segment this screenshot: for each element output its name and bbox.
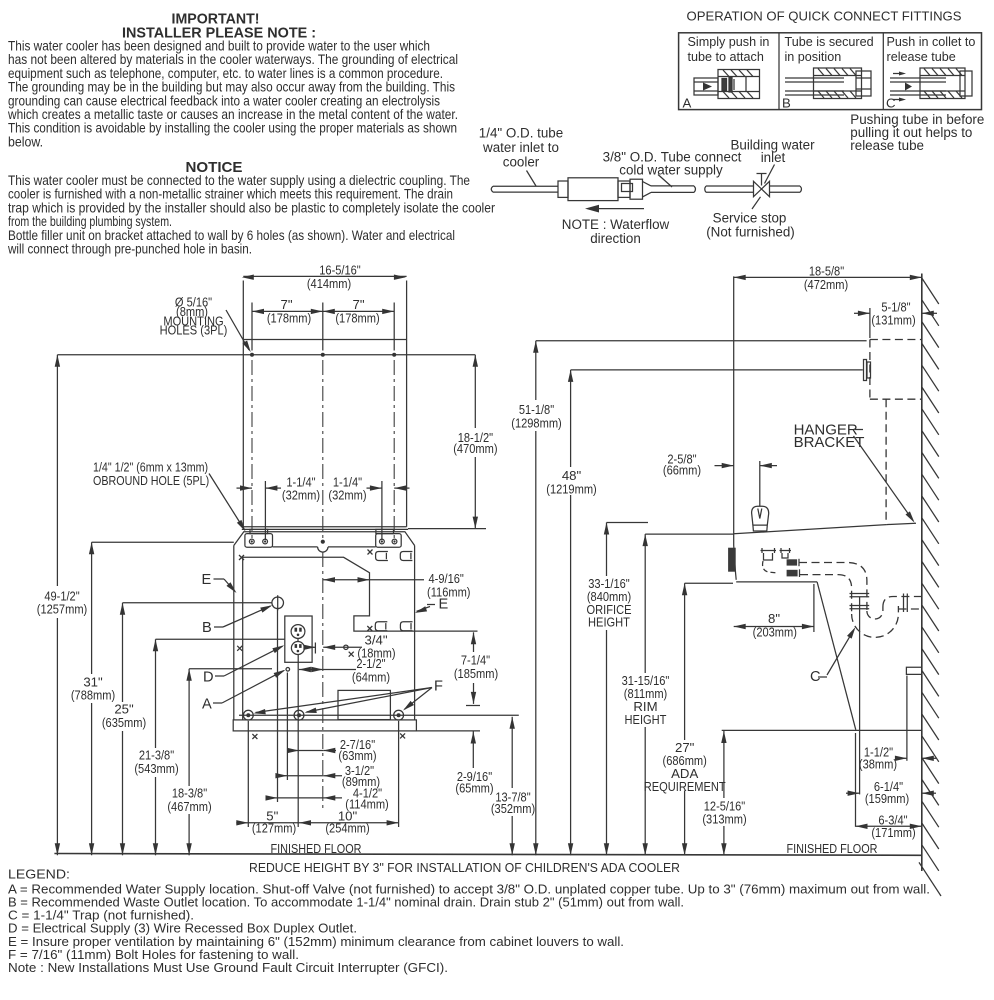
svg-text:OPERATION OF QUICK CONNECT FIT: OPERATION OF QUICK CONNECT FITTINGS <box>687 9 962 24</box>
trap U bend dashed <box>852 606 899 637</box>
floor line <box>54 854 921 856</box>
mounting hole dots <box>250 353 254 357</box>
louver panel <box>338 690 390 719</box>
leader 1/4 tube <box>527 171 537 187</box>
electrical outlet box D <box>285 616 312 662</box>
bracket outline <box>243 340 406 527</box>
svg-text:(203mm): (203mm) <box>753 625 797 640</box>
dimension 12-5/16 <box>702 731 746 855</box>
drain stub <box>729 548 736 571</box>
svg-text:direction: direction <box>590 231 641 246</box>
svg-text:REDUCE HEIGHT BY 3" FOR INSTAL: REDUCE HEIGHT BY 3" FOR INSTALLATION OF … <box>249 860 680 875</box>
dimension 49-1/2 <box>37 355 88 856</box>
dimension 27 ADA requirement <box>644 583 733 855</box>
svg-text:HOLES (3PL): HOLES (3PL) <box>160 323 228 338</box>
label F leaders <box>253 679 443 716</box>
svg-text:(63mm): (63mm) <box>338 748 376 763</box>
svg-text:(32mm): (32mm) <box>282 488 320 503</box>
centerline body <box>322 552 324 812</box>
svg-text:(127mm): (127mm) <box>252 820 296 835</box>
label E left <box>202 572 239 595</box>
svg-text:1/4" O.D. tube: 1/4" O.D. tube <box>479 126 563 141</box>
label D <box>203 643 286 686</box>
svg-text:in position: in position <box>785 50 842 64</box>
svg-text:(467mm): (467mm) <box>167 799 211 814</box>
svg-text:(65mm): (65mm) <box>455 780 493 795</box>
svg-text:(470mm): (470mm) <box>453 441 497 456</box>
cooler front face <box>734 534 737 580</box>
svg-text:release tube: release tube <box>887 50 956 64</box>
svg-text:cooler: cooler <box>503 155 540 170</box>
bracket centerlines <box>251 360 253 540</box>
duplex receptacle upper <box>291 625 305 639</box>
bottom kick bar <box>233 720 416 731</box>
fitting A graphic <box>694 70 760 99</box>
dimension 4-1/2 (114mm) <box>266 785 389 811</box>
dashed water line upper <box>799 563 867 612</box>
cooler body outline front <box>234 532 415 720</box>
svg-text:OBROUND HOLE (5PL): OBROUND HOLE (5PL) <box>93 474 209 488</box>
dimension 51-1/8 (1298mm) <box>511 341 562 856</box>
title NOTICE note <box>7 159 495 257</box>
svg-text:Simply push in: Simply push in <box>688 35 770 49</box>
dimension 3/4 (18mm) <box>303 633 395 661</box>
ext lines bottom dims <box>248 609 398 827</box>
cooler bottom edge <box>736 581 817 583</box>
dimension 2-9/16 (65mm) <box>416 731 493 796</box>
clip lower right <box>400 622 412 631</box>
title IMPORTANT note <box>7 11 458 150</box>
svg-text:Push in collet to: Push in collet to <box>887 35 976 49</box>
label E right <box>414 597 449 616</box>
internal dashed bowl <box>763 561 778 573</box>
wall hatching <box>919 278 941 896</box>
water supply node A <box>286 668 290 672</box>
svg-text:(32mm): (32mm) <box>328 488 366 503</box>
svg-text:inlet: inlet <box>761 150 786 165</box>
svg-text:(414mm): (414mm) <box>307 276 351 291</box>
dimension 3-1/2 (89mm) <box>275 763 380 789</box>
bolt hole F1 <box>243 710 253 720</box>
svg-text:LEGEND:: LEGEND: <box>8 867 70 882</box>
leader building inlet <box>765 165 775 184</box>
leader service stop <box>752 197 761 209</box>
inner panel contour <box>243 557 415 720</box>
svg-text:(472mm): (472mm) <box>804 277 848 292</box>
svg-text:(313mm): (313mm) <box>702 812 746 827</box>
clip upper left <box>376 552 388 561</box>
wall cleat <box>906 667 921 674</box>
dimension 2-7/16 (63mm) <box>287 737 377 763</box>
svg-text:(788mm): (788mm) <box>71 688 115 703</box>
dimension 1-1/4 (32mm) right <box>328 474 409 540</box>
svg-text:(1219mm): (1219mm) <box>546 481 597 496</box>
obround mounting tab left <box>245 529 273 547</box>
legend <box>8 867 930 976</box>
cooler top edge <box>734 525 887 534</box>
dimension 5 and 10 <box>236 809 398 836</box>
waste outlet circle B <box>272 597 284 609</box>
note waterflow arrow <box>589 208 644 210</box>
hanger bolt <box>864 360 871 381</box>
dimension 13-7/8 (352mm) <box>491 717 535 856</box>
label C <box>810 626 858 685</box>
front plane line <box>733 276 735 533</box>
leader 3/8 tube <box>658 175 672 188</box>
svg-text:B: B <box>202 620 212 636</box>
svg-text:1/4" 1/2" (6mm x 13mm): 1/4" 1/2" (6mm x 13mm) <box>93 461 208 475</box>
service stop valve <box>754 174 770 197</box>
wall line <box>921 274 923 872</box>
label obround hole <box>93 461 248 533</box>
mounting holes line <box>57 354 475 356</box>
fitting B graphic <box>785 68 871 99</box>
dimension 33-1/16 orifice height <box>587 523 648 856</box>
svg-text:Service stop: Service stop <box>713 210 787 225</box>
svg-text:(178mm): (178mm) <box>335 310 379 325</box>
dimension 8 (203mm) <box>734 584 814 640</box>
label A <box>202 667 287 712</box>
svg-text:B: B <box>782 96 791 111</box>
svg-text:(159mm): (159mm) <box>865 791 909 806</box>
recessed wall box dashed <box>870 340 922 400</box>
svg-text:D: D <box>203 670 214 686</box>
label B <box>202 603 273 636</box>
dimension 6-3/4 (171mm) <box>856 733 922 840</box>
ref line 31in <box>92 541 234 543</box>
svg-text:(185mm): (185mm) <box>454 666 498 681</box>
dimension 18-5/8 (472mm) <box>734 263 922 292</box>
dimension 7 (178mm) left <box>252 297 394 351</box>
dimension 2-5/8 (66mm) <box>663 452 777 506</box>
bracket bottom flange <box>243 526 406 528</box>
clip lower left <box>375 622 387 631</box>
obround mounting tab right <box>376 529 402 547</box>
dimension 4-9/16 (116mm) <box>323 571 471 599</box>
svg-text:(38mm): (38mm) <box>859 756 897 771</box>
ref line 18-3/8 <box>189 668 272 670</box>
svg-text:below.: below. <box>8 133 43 149</box>
dashed water line lower <box>800 575 852 614</box>
ref line 51-1/8 top <box>536 340 867 342</box>
tube inlet assembly <box>491 178 801 201</box>
knee space line <box>722 729 922 731</box>
svg-text:(543mm): (543mm) <box>134 761 178 776</box>
svg-text:cold water supply: cold water supply <box>619 163 723 178</box>
dimension 18-3/8 <box>167 669 211 856</box>
svg-text:(352mm): (352mm) <box>491 801 535 816</box>
dimension 7-1/4 (185mm) <box>415 631 499 705</box>
dimension 1-1/2 (38mm) <box>859 676 936 772</box>
svg-text:F: F <box>434 679 443 695</box>
x-marks <box>237 550 405 740</box>
svg-text:E: E <box>439 597 449 613</box>
trap outlet dashed <box>883 597 922 610</box>
svg-text:C: C <box>886 96 896 111</box>
svg-text:NOTE : Waterflow: NOTE : Waterflow <box>562 217 670 232</box>
clip upper right <box>400 552 412 561</box>
label mounting holes <box>160 295 253 354</box>
svg-text:This condition is avoidable by: This condition is avoidable by installin… <box>8 120 457 136</box>
svg-text:(Not furnished): (Not furnished) <box>706 224 795 239</box>
dimension 25 <box>102 603 146 856</box>
dimension 21-3/8 <box>134 639 178 855</box>
center hole and notch <box>321 540 325 544</box>
dimension 18-1/2 (470mm) <box>408 355 498 529</box>
bolt hole F3 <box>394 710 404 720</box>
svg-text:(116mm): (116mm) <box>427 584 471 599</box>
svg-text:HEIGHT: HEIGHT <box>588 615 630 630</box>
internal valve fitting upper <box>761 548 792 560</box>
svg-text:(178mm): (178mm) <box>267 310 311 325</box>
duplex receptacle lower <box>291 642 304 655</box>
ref line 25in <box>123 602 272 604</box>
svg-text:(254mm): (254mm) <box>325 820 369 835</box>
svg-text:(635mm): (635mm) <box>102 715 146 730</box>
cooler rear bottom diagonal <box>817 582 856 730</box>
ref line 21-3/8 <box>156 638 285 640</box>
dashed line box to cooler <box>885 399 887 523</box>
svg-text:tube to attach: tube to attach <box>688 50 764 64</box>
quick connect fittings box <box>679 33 982 110</box>
quick connect fittings dark <box>787 559 800 577</box>
dimension 6-1/4 (159mm) <box>846 597 936 806</box>
svg-text:(66mm): (66mm) <box>663 463 701 478</box>
svg-text:A: A <box>202 697 212 713</box>
svg-text:E: E <box>202 572 212 588</box>
svg-text:(131mm): (131mm) <box>871 312 915 327</box>
svg-text:16-5/16": 16-5/16" <box>319 262 361 277</box>
svg-text:REQUIREMENT: REQUIREMENT <box>644 779 726 794</box>
svg-text:HEIGHT: HEIGHT <box>625 712 667 727</box>
trap unions <box>850 594 908 613</box>
dimension 1-1/4 (32mm) left <box>237 474 321 540</box>
svg-text:water inlet to: water inlet to <box>482 140 559 155</box>
svg-text:will connect through pre-punch: will connect through pre-punched hole in… <box>7 241 252 257</box>
dimension 16-5/16 (414mm) <box>242 262 407 339</box>
bubbler <box>752 506 769 531</box>
dimension 31 <box>71 542 115 855</box>
svg-text:Note : New Installations Must: Note : New Installations Must Use Ground… <box>8 960 448 975</box>
svg-text:(1298mm): (1298mm) <box>511 415 562 430</box>
svg-text:(64mm): (64mm) <box>352 669 390 684</box>
bolt hole F2 <box>294 710 304 720</box>
svg-text:Tube is secured: Tube is secured <box>785 35 874 49</box>
dimension 48 (1219mm) <box>546 370 597 855</box>
dimension 2-1/2 (64mm) <box>299 656 390 684</box>
receptacle connector line <box>297 638 299 641</box>
svg-text:release tube: release tube <box>850 138 924 153</box>
dimension 5-1/8 (131mm) <box>854 299 937 338</box>
label hanger bracket <box>794 422 917 525</box>
svg-text:(171mm): (171mm) <box>871 825 915 840</box>
svg-text:(1257mm): (1257mm) <box>37 602 88 617</box>
bolt centerline <box>239 714 519 716</box>
dimension 31-15/16 rim height <box>622 534 734 855</box>
svg-text:FINISHED FLOOR: FINISHED FLOOR <box>787 841 878 856</box>
svg-text:A: A <box>683 96 692 111</box>
ref line 48 <box>571 369 863 371</box>
fitting C graphic <box>890 68 972 102</box>
